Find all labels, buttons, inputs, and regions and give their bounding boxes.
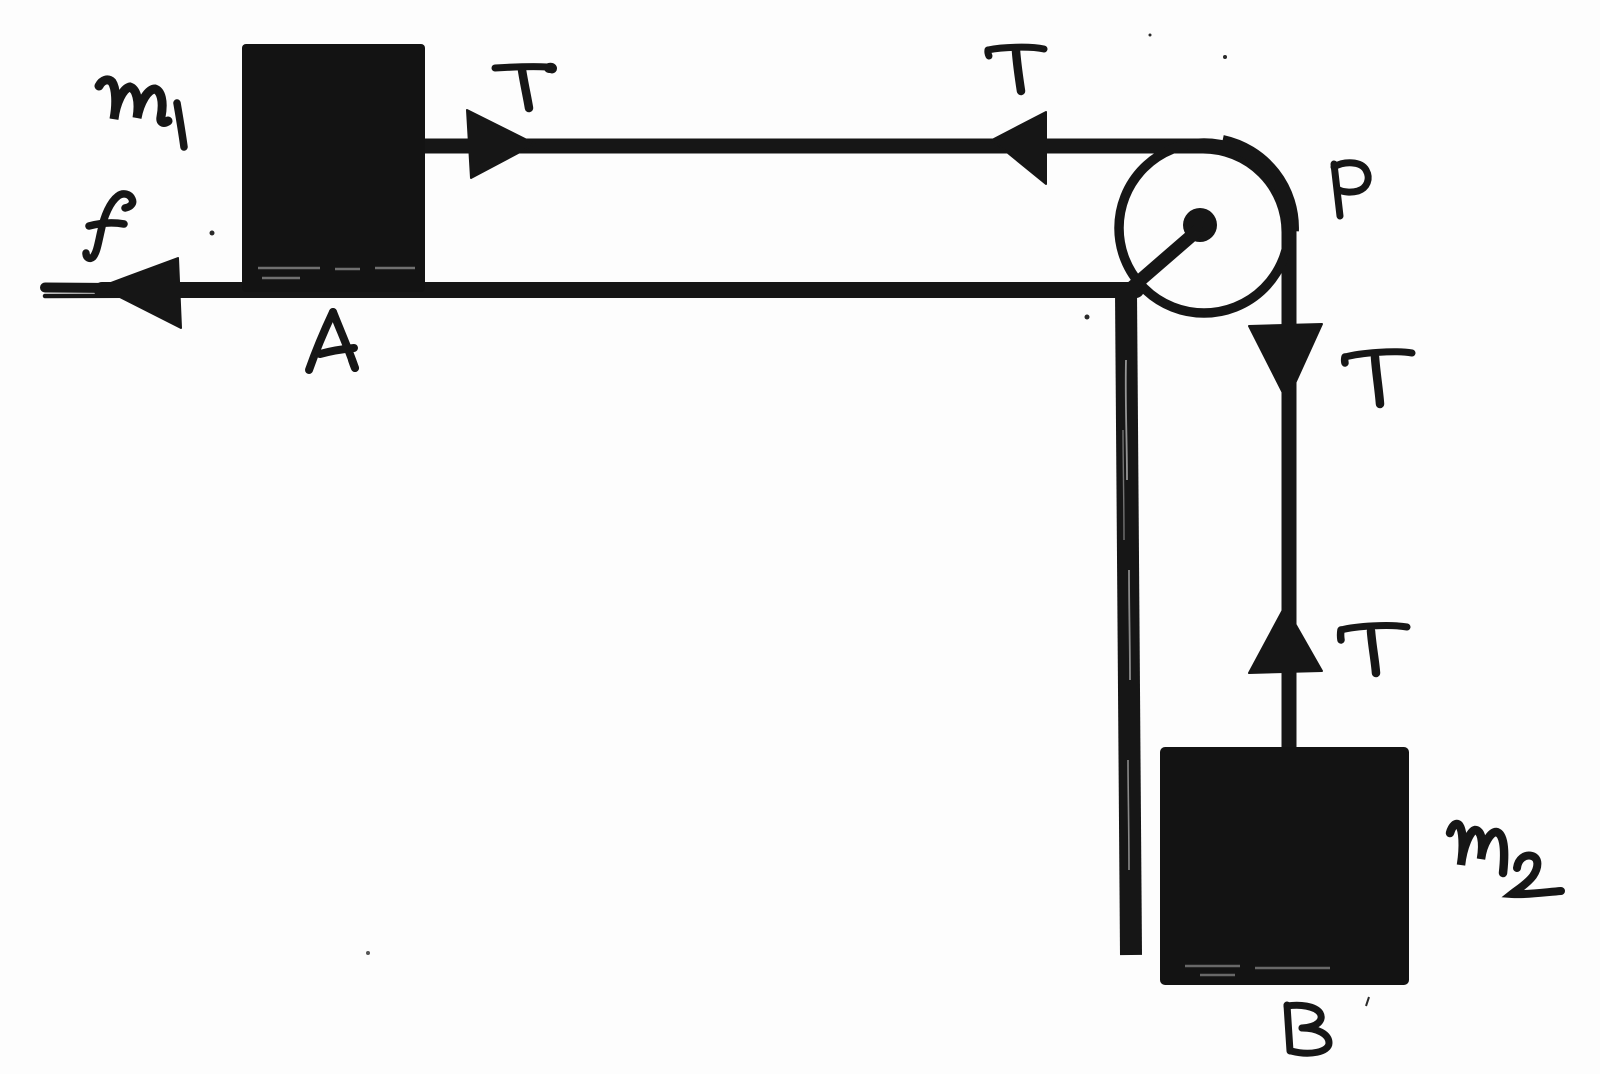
arrowhead: tension T on block A (points right) xyxy=(467,110,535,178)
label T upper-left xyxy=(495,67,552,108)
label A xyxy=(309,312,355,370)
wire: table edge vertical leg xyxy=(1123,292,1131,955)
label m2 xyxy=(1450,824,1561,894)
scan speck left of table leg xyxy=(1085,315,1090,320)
scan speck near f xyxy=(210,231,215,236)
wire: table surface line xyxy=(45,288,1136,297)
scan tick right of B xyxy=(1366,997,1369,1006)
label f xyxy=(86,194,133,259)
arrowhead: tension T below pulley (points down) xyxy=(1249,324,1322,401)
arrowhead: tension T above block B (points up) xyxy=(1249,606,1322,673)
label T lower-right xyxy=(1341,626,1407,673)
block A (mass m1) xyxy=(242,44,425,292)
label B xyxy=(1287,1005,1329,1053)
pulley hub dot xyxy=(1183,208,1217,242)
label P xyxy=(1334,163,1368,216)
scan speck above pulley xyxy=(1223,55,1227,59)
block B (mass m2) xyxy=(1160,747,1409,985)
label m1 xyxy=(99,80,184,147)
arrowhead: friction force f (points left) xyxy=(100,258,181,328)
scan speck bottom left xyxy=(366,951,370,955)
pulley P circle xyxy=(1119,143,1289,313)
wire: string wrap outer edge on pulley xyxy=(1223,139,1295,232)
arrowhead: tension T near pulley (points left) xyxy=(992,112,1046,184)
label T mid-right xyxy=(1345,352,1412,404)
pulley spoke xyxy=(1122,231,1197,296)
label T upper-right xyxy=(988,47,1044,91)
scan speck upper middle xyxy=(1149,34,1152,37)
wire: string from block A over pulley down to block B xyxy=(425,146,1289,749)
